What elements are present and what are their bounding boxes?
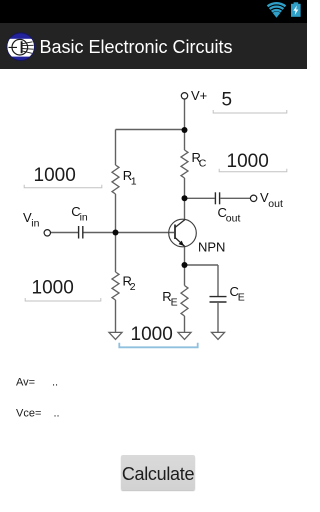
node dot V+ rail junction (182, 127, 188, 133)
svg-text:5: 5 (222, 90, 233, 111)
svg-text:out: out (268, 198, 283, 210)
wire Cin to base node (83, 232, 115, 234)
wire emitter lead (184, 247, 186, 266)
node dot emitter (182, 262, 188, 268)
capacitor Cin (79, 226, 83, 239)
terminal V+ (181, 93, 187, 99)
svg-text:E: E (238, 292, 245, 304)
capacitor Cout (215, 192, 219, 204)
svg-text:in: in (31, 218, 39, 230)
wire collector lead (184, 198, 186, 220)
svg-text:2: 2 (130, 281, 136, 293)
wifi icon (268, 3, 286, 18)
wire collector node to Cout (185, 197, 215, 199)
resistor R2 (112, 272, 119, 300)
node dot base (113, 230, 119, 236)
wire base (116, 232, 175, 234)
field underline RE focused (119, 343, 197, 348)
field underline R2 (25, 298, 101, 301)
resistor RC (181, 150, 188, 178)
field underline RC (219, 169, 287, 172)
wire emitter node to RE (184, 265, 186, 286)
label Vout (260, 190, 283, 210)
svg-text:V+: V+ (191, 88, 207, 103)
svg-text:1000: 1000 (32, 278, 74, 299)
wire Cout to Vout (220, 197, 250, 199)
svg-text:Vce=: Vce= (16, 408, 41, 420)
svg-text:in: in (80, 212, 88, 224)
calculate button (121, 455, 195, 490)
label Vin (23, 210, 40, 230)
field underline V+ (213, 110, 287, 113)
wire V+ terminal lead (184, 99, 186, 130)
wire R1 to base node (115, 194, 117, 233)
wire CE to ground (217, 302, 219, 333)
wire RE to ground (184, 316, 186, 333)
svg-text:1: 1 (131, 176, 137, 188)
wire top rail R1 to V+ rail (116, 129, 185, 131)
ground R2 (109, 332, 122, 339)
svg-text:Av=: Av= (16, 377, 35, 389)
wire base node to R2 (115, 233, 117, 273)
wire emitter node to CE (185, 264, 219, 266)
label R1 (123, 168, 137, 188)
ground CE (212, 332, 225, 339)
action bar (0, 23, 307, 69)
status bar (0, 0, 307, 23)
label RC (192, 150, 207, 170)
capacitor CE (210, 297, 227, 302)
svg-text:..: .. (54, 408, 60, 420)
svg-text:1000: 1000 (34, 165, 76, 186)
svg-text:..: .. (52, 377, 58, 389)
svg-text:1000: 1000 (227, 151, 269, 172)
resistor RE (181, 286, 188, 316)
svg-text:NPN: NPN (198, 240, 225, 255)
label RE (162, 289, 177, 309)
label Cin (71, 204, 88, 224)
node dot collector (182, 195, 188, 201)
wire CE top lead (217, 265, 219, 297)
svg-text:E: E (171, 297, 178, 309)
field underline R1 (24, 185, 102, 188)
terminal Vin (44, 230, 50, 236)
label Cout (218, 205, 241, 225)
wire R1 top lead (115, 130, 117, 166)
wire Vin to Cin (51, 232, 78, 234)
svg-text:out: out (226, 213, 241, 225)
transistor Q1 NPN (169, 219, 197, 247)
app icon (6, 32, 36, 63)
terminal Vout (250, 195, 256, 201)
battery icon (291, 2, 301, 16)
label R2 (123, 274, 136, 294)
wire V+ node to RC (184, 130, 186, 150)
svg-text:C: C (199, 158, 207, 170)
svg-text:1000: 1000 (131, 324, 173, 345)
ground RE (178, 332, 191, 339)
wire RC to collector node (184, 178, 186, 198)
resistor R1 (112, 165, 119, 194)
label CE (230, 284, 245, 304)
wire R2 to ground (115, 300, 117, 333)
